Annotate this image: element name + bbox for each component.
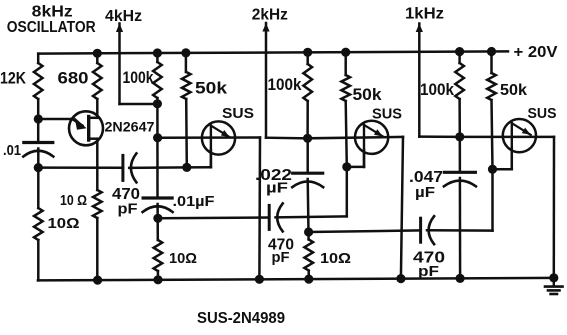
resistor R4 10 ohm: [93, 190, 102, 218]
wire base2 lead: [96, 99, 99, 118]
node 100k2 top: [303, 48, 312, 57]
node 2kHz tap arrow: [262, 23, 269, 32]
resistor R3 680: [96, 53, 99, 63]
capacitor C3 .01uF: [143, 196, 172, 199]
capacitor C2 470pF: [121, 155, 124, 180]
wire base1 lead: [89, 137, 98, 140]
resistor R9 10 ohm: [304, 240, 313, 271]
ground: [553, 278, 555, 286]
resistor R1 12K: [37, 54, 40, 63]
node emitter junction: [34, 114, 43, 123]
svg-text:.01: .01: [3, 143, 21, 159]
svg-text:2N2647: 2N2647: [105, 119, 155, 135]
node SUS1 anode junction: [153, 133, 162, 142]
resistor R5 100k: [156, 53, 159, 62]
op-amp U3 SUS: [503, 119, 536, 152]
svg-text:680: 680: [58, 70, 89, 88]
svg-text:.01µF: .01µF: [173, 194, 215, 210]
wire SUS1 cathode down: [258, 138, 261, 280]
resistor R6 10 ohm: [154, 240, 163, 271]
node 2kHz junction: [303, 134, 312, 143]
svg-text:10 Ω: 10 Ω: [60, 193, 87, 209]
svg-text:50k: 50k: [195, 80, 228, 98]
capacitor C4 470pF: [268, 205, 271, 229]
svg-text:pF: pF: [418, 264, 439, 280]
node 50k3 top: [487, 47, 496, 56]
node 1kHz tap arrow: [416, 24, 423, 33]
wire SUS3 anode: [460, 136, 554, 139]
node C1 bottom junction: [34, 163, 43, 172]
svg-text:SUS: SUS: [222, 105, 254, 122]
svg-text:100k: 100k: [420, 81, 455, 99]
svg-text:µF: µF: [415, 185, 435, 201]
wire top +20V rail: [38, 51, 508, 53]
op-amp U1 SUS: [202, 121, 235, 154]
node 100k3 top: [455, 47, 464, 56]
node gate2 junction: [342, 162, 351, 171]
resistor R2 10 ohm: [34, 208, 43, 240]
wire 4kHz riser: [118, 24, 121, 105]
node 1kHz junction: [455, 132, 464, 141]
wire bottom ground rail: [38, 278, 554, 281]
svg-text:100k: 100k: [268, 76, 303, 94]
node gate1 junction: [182, 163, 191, 172]
capacitor C7 .047uF: [444, 171, 475, 174]
svg-text:12K: 12K: [0, 70, 26, 88]
wire 2kHz riser: [265, 23, 268, 138]
wire gate2 feed: [158, 216, 269, 219]
resistor R10 50k: [344, 52, 347, 75]
svg-text:2kHz: 2kHz: [252, 7, 288, 24]
resistor R11 100k: [458, 52, 461, 63]
capacitor C5 .022uF: [293, 172, 323, 175]
node C3 bottom junction: [153, 214, 162, 223]
svg-text:10Ω: 10Ω: [48, 216, 80, 232]
node 50k1 top: [181, 48, 190, 57]
node 4kHz tap arrow: [116, 24, 123, 33]
wire SUS2 anode: [308, 137, 403, 138]
svg-text:pF: pF: [272, 250, 290, 266]
node 4kHz junction: [153, 99, 162, 108]
svg-text:10Ω: 10Ω: [169, 250, 197, 267]
node gate3 junction: [488, 165, 497, 174]
node 680 top: [93, 49, 102, 58]
wire SUS2 cathode down: [401, 137, 403, 279]
node 100k1 top: [153, 48, 162, 57]
svg-text:50k: 50k: [500, 82, 527, 99]
capacitor C1 .01: [24, 141, 53, 144]
resistor R7 50k: [185, 53, 188, 72]
svg-text:OSCILLATOR: OSCILLATOR: [7, 19, 96, 36]
node 50k2 top: [341, 48, 350, 57]
wire emitter: [38, 118, 73, 121]
svg-text:µF: µF: [266, 181, 288, 197]
wire 1kHz riser: [418, 24, 421, 137]
resistor R8 100k: [306, 52, 309, 64]
wire SUS1 anode: [158, 136, 260, 139]
resistor R12 50k: [490, 52, 493, 74]
svg-text:1kHz: 1kHz: [405, 6, 444, 23]
wire SUS3 cathode down: [553, 137, 556, 278]
svg-text:SUS-2N4989: SUS-2N4989: [197, 310, 285, 327]
svg-text:4kHz: 4kHz: [105, 8, 142, 25]
svg-text:pF: pF: [118, 201, 138, 218]
svg-text:10Ω: 10Ω: [320, 250, 351, 267]
svg-text:SUS: SUS: [372, 107, 402, 123]
svg-text:.047: .047: [409, 169, 443, 186]
capacitor C6 470pF: [419, 218, 422, 242]
svg-text:8kHz: 8kHz: [32, 4, 73, 21]
wire gate3 feed: [309, 230, 421, 232]
transistor Q1 2N2647: [69, 111, 103, 145]
svg-text:SUS: SUS: [528, 106, 557, 122]
svg-text:+ 20V: + 20V: [514, 44, 559, 61]
wire gate1 feed: [38, 166, 123, 169]
svg-text:50k: 50k: [353, 86, 383, 104]
svg-text:100k: 100k: [123, 69, 155, 87]
op-amp U2 SUS: [355, 121, 388, 154]
node C5 bottom junction: [304, 227, 313, 236]
